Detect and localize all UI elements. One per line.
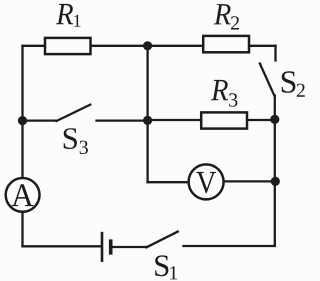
label S3 subscript 3 xyxy=(80,141,88,154)
wire: R3 row from middle junction to right junction xyxy=(148,119,275,121)
node: right voltmeter-row junction dot xyxy=(271,177,280,186)
wire: battery to switch S1 pivot xyxy=(112,246,147,248)
ammeter letter A xyxy=(12,184,34,206)
wire: right vertical stub above switch S2 xyxy=(274,46,276,61)
wire: right vertical below S2 to bottom-right corner xyxy=(274,96,276,246)
label R1 'R' xyxy=(56,4,73,24)
battery short plate xyxy=(109,239,113,254)
resistor R1 xyxy=(45,38,91,54)
label R2 'R' xyxy=(214,4,231,24)
voltmeter letter V xyxy=(196,172,216,194)
label R2 subscript 2 xyxy=(231,16,239,29)
voltmeter V (circle) xyxy=(189,164,224,199)
label S2 'S' xyxy=(282,71,296,93)
wire: S3 fixed contact to middle junction xyxy=(97,119,148,121)
wire: left vertical lower (ammeter to bottom rail) xyxy=(21,212,23,247)
label R3 'R' xyxy=(211,80,228,100)
wire: S3 row from left junction to S3 pivot xyxy=(23,119,57,121)
wire: bottom rail from left corner to battery xyxy=(23,245,102,247)
resistor R2 xyxy=(203,36,249,52)
label S1 subscript 1 xyxy=(170,266,177,279)
resistor R3 xyxy=(201,112,247,128)
battery long plate xyxy=(101,232,104,262)
node: right R3-row junction dot xyxy=(270,115,279,124)
wire: voltmeter row, corner to voltmeter xyxy=(148,181,206,183)
label S3 'S' xyxy=(64,128,77,149)
switch S1 blade xyxy=(147,232,178,248)
ammeter A (circle) xyxy=(6,178,40,212)
label S2 subscript 2 xyxy=(297,84,305,97)
wire: top rail xyxy=(23,45,276,47)
node: middle crossing junction dot xyxy=(143,116,152,125)
label S1 'S' xyxy=(155,255,168,276)
node: left S3-row junction dot xyxy=(18,116,27,125)
wire: middle vertical from top junction down to voltmeter row xyxy=(146,46,148,182)
wire: left vertical upper (top rail to ammeter) xyxy=(21,46,23,178)
switch S3 blade xyxy=(57,105,91,121)
wire: voltmeter to right vertical xyxy=(206,180,276,182)
label R3 subscript 3 xyxy=(229,93,237,106)
label R1 subscript 1 xyxy=(74,15,80,27)
node: top middle junction dot xyxy=(143,41,152,50)
switch S2 blade xyxy=(260,64,275,96)
wire: S1 fixed contact to bottom-right corner xyxy=(184,245,275,247)
